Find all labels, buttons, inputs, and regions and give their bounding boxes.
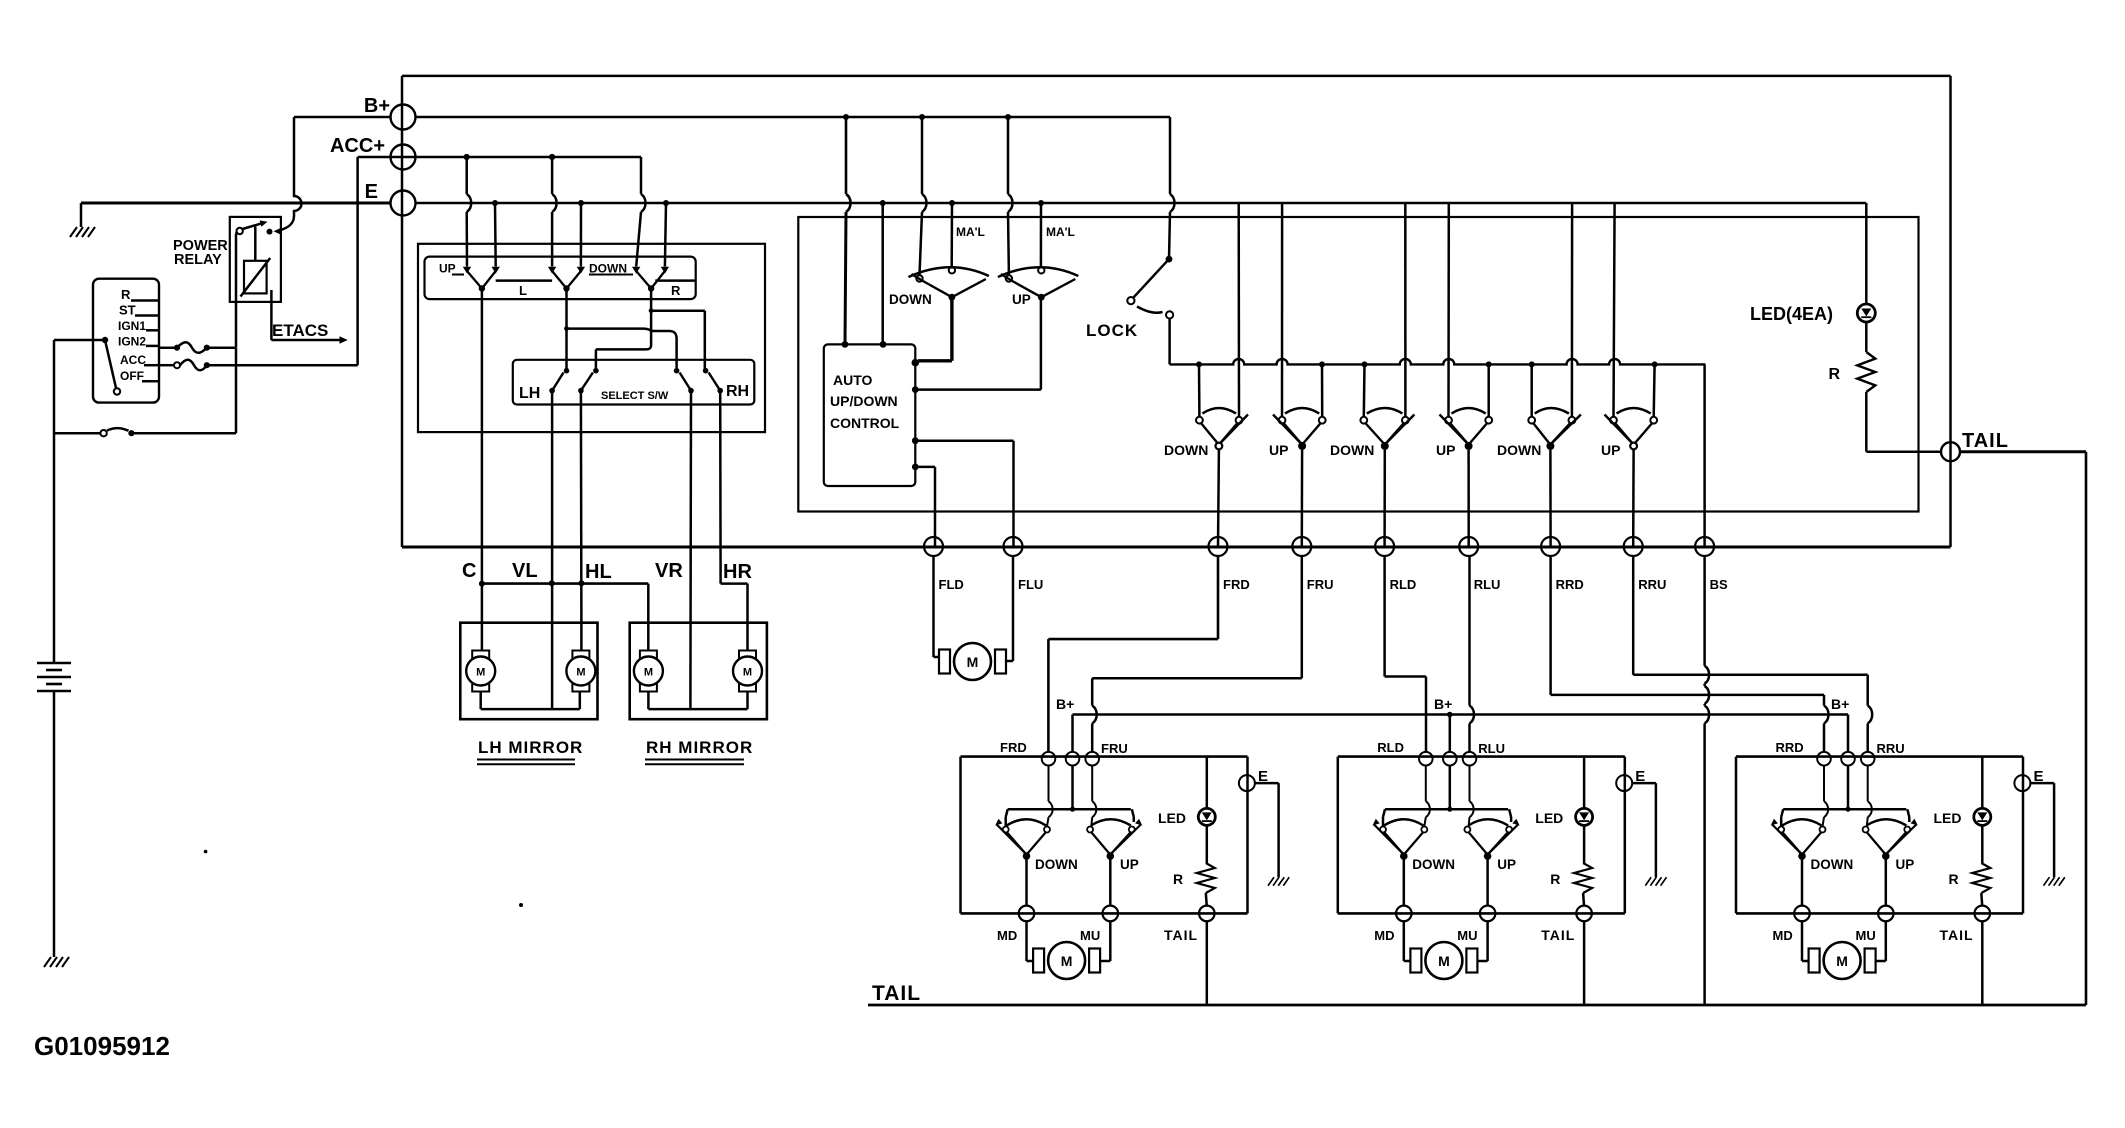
ground sub RR [2044,877,2050,886]
svg-text:ACC: ACC [120,353,146,367]
wire rocker3 apex junction [650,289,653,311]
wire MD to motor [1801,921,1804,961]
wire B+ drop to control pin1 [845,117,848,194]
svg-text:RRU: RRU [1638,577,1666,592]
svg-text:UP: UP [1269,442,1288,458]
motor M1 (LH vertical) [472,651,489,660]
svg-text:UP: UP [1012,292,1031,307]
svg-text:MD: MD [1773,928,1793,943]
wire MU to motor [1486,921,1489,961]
svg-text:VL: VL [512,560,538,582]
svg-text:FRD: FRD [1223,577,1250,592]
terminal B+ circle [391,105,416,130]
wire TAIL bus [868,1004,2086,1007]
battery B1 [53,646,56,663]
connector E circle sub [1616,775,1632,791]
connector MU circle [1103,906,1119,922]
svg-text:M: M [967,654,979,670]
svg-text:DOWN: DOWN [1330,442,1374,458]
fuse F1 (IGN2 row) [159,346,177,349]
sub box RLD [1338,755,1625,758]
svg-text:VR: VR [655,560,683,582]
switch sub DOWN RRD [1778,827,1784,833]
svg-text:FRD: FRD [1000,740,1027,755]
svg-text:M: M [476,667,485,679]
svg-text:LOCK: LOCK [1086,321,1138,340]
switch MA'L UP [1006,275,1012,281]
wire rocker2 branch crossover [567,329,677,371]
motor window FR [1033,949,1044,973]
connector FRD circle [1209,537,1228,556]
wire RLU' to switch [1469,766,1471,801]
svg-text:LED: LED [1158,810,1186,826]
svg-text:IGN1: IGN1 [118,319,146,333]
wire coil to ETACS [270,290,273,340]
svg-text:UP/DOWN: UP/DOWN [830,393,898,409]
wire RRU route [1632,556,1635,675]
artifact dot 1 [519,903,523,907]
svg-text:MD: MD [1374,928,1394,943]
svg-text:IGN2: IGN2 [118,335,146,349]
switch window RRD (DOWN) [1528,417,1535,424]
connector MU circle [1878,906,1894,922]
svg-text:G01095912: G01095912 [34,1031,170,1061]
connector RRD circle [1541,537,1560,556]
ignition switch SW1 box [93,279,159,403]
svg-text:RH: RH [726,383,749,400]
wire TAIL sub drop [1206,921,1209,1005]
LED sub RL [1583,757,1586,808]
wire sub B+ rail [1449,766,1452,809]
wire B+ circle to relay [294,116,391,119]
svg-text:DOWN: DOWN [1035,857,1078,872]
sub box RRD [1736,755,2023,758]
svg-text:MU: MU [1080,928,1100,943]
svg-text:ST: ST [119,303,136,318]
resistor R sub [1583,825,1586,863]
wire MU to motor [1109,921,1112,961]
mirror rocker switch 1 (UP/L) [463,267,471,274]
svg-text:B+: B+ [1056,696,1074,712]
wire E taps to switches [1237,203,1240,417]
svg-text:HR: HR [723,561,752,583]
LH mirror box [460,623,597,720]
svg-text:LED: LED [1535,810,1563,826]
svg-text:B+: B+ [1831,696,1849,712]
terminal TAIL circle [1941,442,1960,461]
ground sub FR [1268,877,1274,886]
wire rocker1 apex to C [481,289,484,584]
svg-text:MA'L: MA'L [956,225,985,239]
wire BS riser [1703,364,1706,546]
artifact dot 2 [204,850,208,854]
wire FRU route [1301,556,1304,678]
wire HL [580,391,583,623]
svg-text:R: R [1550,871,1560,887]
wire battery to ignition feed [53,340,56,646]
wire contacts drop [1780,817,1783,827]
wire ACC drop 1 [465,157,468,194]
wire E drop to MAL-UP mid [1040,203,1043,267]
switch window RLD (DOWN) [1360,417,1367,424]
wire RRU' to switch [1867,766,1869,801]
svg-text:DOWN: DOWN [1412,857,1455,872]
wire C bus to mirrors [481,584,484,652]
wire pin5 to FLU [915,439,1013,442]
label R with overline [655,279,695,282]
wire pin6 to FLD [915,466,935,469]
wire TAIL to right edge [1960,450,2086,453]
svg-text:FLU: FLU [1018,577,1043,592]
wire LOCK to lock bus [1168,319,1171,365]
switch window FRD (DOWN) [1196,417,1203,424]
connector RRD' circle [1817,752,1831,766]
wire VR [689,391,692,709]
switch window FRU (UP) [1279,417,1286,424]
wire E drop to control pin2 [881,203,884,344]
svg-text:UP: UP [1896,857,1915,872]
circuit breaker SW2 [54,432,100,435]
svg-text:ACC+: ACC+ [330,135,385,157]
main switch inner box [798,217,1918,512]
wire LH motors common [479,692,482,710]
wire RH motors common [647,692,650,710]
svg-text:SELECT S/W: SELECT S/W [601,390,669,402]
connector TAIL circle sub [1975,906,1991,922]
wire RLU route [1468,556,1471,706]
svg-text:DOWN: DOWN [1497,442,1541,458]
connector FRU circle [1292,537,1311,556]
connector E circle sub [2014,775,2030,791]
svg-text:TAIL: TAIL [1940,927,1974,943]
wire RLD down [1383,450,1386,547]
wire IGN2 riser to relay [235,234,238,348]
LED D1 (4EA) [1857,304,1875,322]
switch sub UP RLU [1464,827,1470,833]
switch sub UP FRU [1087,827,1093,833]
motor window RL [1410,949,1421,973]
wire TAIL sub drop [1981,921,1984,1005]
wire B+ bus end drop to LOCK [1169,117,1172,194]
wire MAL-DOWN apex to pin3 [950,297,953,361]
wire FRU down [1301,450,1304,547]
svg-text:M: M [1061,953,1073,969]
svg-text:LED(4EA): LED(4EA) [1750,304,1833,324]
svg-text:R: R [1173,871,1183,887]
mirror rocker switch 3 (R) [632,267,640,274]
power relay K1 box [230,217,281,302]
svg-text:UP: UP [1601,442,1620,458]
wire E to ground [1255,782,1279,785]
resistor R1 [1865,322,1868,352]
svg-text:MA'L: MA'L [1046,225,1075,239]
connector B+ circle RRD [1841,752,1855,766]
wire BS to TAIL bus [1703,556,1706,666]
wire FLU to motor [1012,556,1015,661]
mirror rocker box [425,257,696,300]
wire ACC+ bus [358,156,641,159]
connector MU circle [1480,906,1496,922]
wire sub B+ rail [1071,766,1074,809]
svg-text:TAIL: TAIL [1164,927,1198,943]
svg-text:DOWN: DOWN [889,292,932,307]
switch MA'L DOWN [916,275,922,281]
wire E drop 2 [580,203,583,267]
switch sub DOWN FRD [1003,827,1009,833]
ground sub RL [1645,877,1651,886]
wire lock bus [1170,359,1706,364]
wire FRU' to switch [1091,766,1093,801]
svg-text:TAIL: TAIL [1541,927,1575,943]
svg-text:UP: UP [439,262,456,276]
wire E drop to MAL-DOWN mid [950,203,953,267]
svg-text:DOWN: DOWN [1811,857,1854,872]
connector RRU circle [1624,537,1643,556]
svg-text:R: R [1949,871,1959,887]
wire FRD route [1217,556,1220,639]
connector RRU' circle [1861,752,1875,766]
svg-text:MD: MD [997,928,1017,943]
wire MD drop [1403,856,1406,906]
wire FRD down [1217,450,1220,547]
switch LOCK [1166,256,1173,263]
wire contacts drop [1382,817,1385,827]
svg-text:M: M [644,667,653,679]
switch sub UP RRU [1863,827,1869,833]
ignition switch row contacts [131,299,159,302]
wire VL [551,391,554,709]
wire MD drop [1801,856,1804,906]
connector TAIL circle sub [1576,906,1592,922]
connector E circle sub [1239,775,1255,791]
wire E bus to LED [1865,203,1868,305]
wire RLD route [1383,556,1386,677]
connector FRU' circle [1085,752,1099,766]
LED sub FR [1206,757,1209,808]
svg-text:M: M [1438,953,1450,969]
wire HR [719,391,722,584]
auto up/down control box U1 [824,344,916,486]
wire ACC drop 3 (bus end) [640,157,643,194]
wire E drop 3 [665,203,666,267]
ignition rotor arm [102,337,108,343]
wire FRD' to switch [1048,766,1050,801]
svg-text:RRD: RRD [1776,740,1804,755]
wire B+ drop to MAL-UP [1007,117,1010,194]
svg-text:RLD: RLD [1390,577,1417,592]
ground G2 (E line) [70,227,77,237]
wire E to ground [1632,782,1656,785]
wire MD to motor [1025,921,1028,961]
svg-text:OFF: OFF [120,369,144,383]
motor M2 (LH horizontal) [572,651,589,660]
svg-text:M: M [1836,953,1848,969]
svg-text:CONTROL: CONTROL [830,415,900,431]
wire ACC riser [356,157,359,365]
svg-text:LED: LED [1934,810,1962,826]
motor window RR [1809,949,1820,973]
mirror switch outer box [418,244,765,432]
connector RLD circle [1375,537,1394,556]
wire rocker2 apex to select LH [565,289,568,371]
wire RRD route [1549,556,1552,695]
svg-text:RLU: RLU [1474,577,1501,592]
switch window RLU (UP) [1445,417,1452,424]
wire TAIL sub drop [1583,921,1586,1005]
wire RRD down [1549,450,1552,547]
svg-text:LH MIRROR: LH MIRROR [478,738,583,757]
wire contacts drop [1004,817,1007,827]
svg-text:L: L [519,283,527,298]
svg-text:FRU: FRU [1307,577,1334,592]
svg-text:UP: UP [1120,857,1139,872]
wire RRU down [1632,450,1635,547]
motor M4 (RH horizontal) [739,651,756,660]
wire B+ bus [416,116,1171,119]
select switch RH-H [703,368,709,374]
motor M5 (driver window) [939,650,950,674]
svg-text:RELAY: RELAY [174,252,222,268]
svg-text:FRU: FRU [1101,741,1128,756]
wire MAL-UP apex to pin4 [1040,297,1043,389]
svg-text:RRD: RRD [1556,577,1584,592]
connector MD circle [1396,906,1412,922]
fuse F2 (ACC row) [159,364,174,367]
svg-text:LH: LH [519,385,540,402]
connector TAIL circle sub [1199,906,1215,922]
label L with overline [496,279,552,282]
wire E line left with ground [81,202,391,205]
svg-text:DOWN: DOWN [1164,442,1208,458]
svg-text:ETACS: ETACS [272,321,328,340]
svg-text:RH MIRROR: RH MIRROR [646,738,753,757]
wire rocker3 branch down-left [650,311,653,345]
mirror select switch box [513,360,755,405]
RH mirror box [630,623,767,720]
svg-text:RRU: RRU [1877,741,1905,756]
svg-text:AUTO: AUTO [833,372,873,388]
main switch outer box [402,75,1951,78]
wire E to ground [2030,782,2054,785]
connector B+ circle FRD [1066,752,1080,766]
svg-text:B+: B+ [1434,696,1452,712]
svg-text:MU: MU [1856,928,1876,943]
wire ignition common feed [54,339,103,342]
LED sub RR [1981,757,1984,808]
connector MD circle [1019,906,1035,922]
select switch RH-V [674,368,680,374]
svg-text:TAIL: TAIL [1962,430,2009,452]
wire B+ drop to MAL-DOWN [921,117,924,194]
connector B+ circle RLD [1443,752,1457,766]
svg-text:DOWN: DOWN [589,262,627,276]
svg-text:MU: MU [1457,928,1477,943]
svg-text:TAIL: TAIL [872,982,921,1005]
svg-text:E: E [365,181,378,203]
wire E drop 1 [494,203,497,267]
terminal ACC+ circle [391,145,416,170]
connector FLD circle [924,537,943,556]
connector RLD' circle [1419,752,1433,766]
wire MU to motor [1885,921,1888,961]
mirror rocker switch 2 (DOWN mid) [548,267,556,274]
connector RLU circle [1459,537,1478,556]
resistor R sub [1981,825,1984,863]
wire MD to motor [1403,921,1406,961]
svg-text:C: C [462,560,476,582]
switch sub DOWN RLD [1380,827,1386,833]
switch window RRU (UP) [1610,417,1617,424]
wire sub B+ rail [1847,766,1850,809]
terminal E circle [391,191,416,216]
wire MU drop [1486,856,1489,906]
wire RLU down [1467,450,1470,547]
select switch LH-V [564,368,570,374]
wire RRD' to switch [1823,766,1825,801]
svg-text:UP: UP [1436,442,1455,458]
connector FLU circle [1004,537,1023,556]
sub box FRD [961,755,1248,758]
svg-text:RLU: RLU [1478,741,1505,756]
wire FLD to motor [932,556,935,657]
svg-text:HL: HL [585,561,612,583]
relay coil [244,261,267,294]
svg-text:RLD: RLD [1377,740,1404,755]
connector BS circle [1695,537,1714,556]
wire MU drop [1885,856,1888,906]
wire R1 to TAIL circle [1866,450,1941,453]
wire RLD' to switch [1425,766,1427,801]
control box pins [842,341,849,348]
select switch LH-H [593,368,599,374]
svg-text:B+: B+ [364,95,390,117]
svg-text:R: R [1828,366,1840,383]
resistor R sub [1206,825,1209,863]
connector FRD' circle [1042,752,1056,766]
svg-text:FLD: FLD [939,577,964,592]
svg-text:M: M [576,667,585,679]
motor M3 (RH vertical) [640,651,657,660]
wire ACC drop 2 [551,157,554,194]
svg-text:R: R [121,287,131,302]
connector RLU' circle [1463,752,1477,766]
wire rocker3 branch right [651,309,705,312]
ground G1 (battery) [44,957,51,967]
wire MD drop [1025,856,1028,906]
wire B+ rail (sub switches) [1071,715,1074,753]
connector MD circle [1794,906,1810,922]
wire E bus [416,202,1867,205]
wire lock taps [1198,364,1201,416]
svg-text:BS: BS [1710,577,1728,592]
relay contact [237,228,243,234]
wire MU drop [1109,856,1112,906]
svg-text:M: M [743,667,752,679]
svg-text:R: R [671,283,681,298]
svg-text:UP: UP [1497,857,1516,872]
